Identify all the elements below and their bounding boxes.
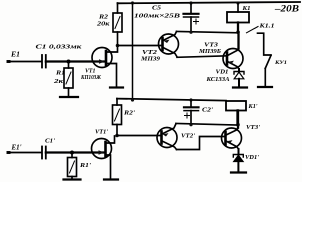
svg-text:КС133А: КС133А [205, 76, 230, 83]
ground [104, 178, 118, 180]
svg-text:КП103Ж: КП103Ж [80, 74, 102, 81]
wire supply drop to lower channel [131, 1, 134, 100]
ground [64, 178, 81, 180]
transistor VT1' [92, 129, 115, 179]
resistor R2 [96, 3, 122, 46]
terminal E1 [7, 50, 21, 64]
transistor VT2' [157, 124, 195, 150]
wire VT3' collector up to relay K1' [237, 111, 239, 128]
capacitor C5 [134, 1, 199, 33]
transistor VT3' [222, 124, 261, 149]
transistor VT3 МП39Б [198, 42, 243, 70]
wire [46, 151, 104, 153]
svg-text:МП39Б: МП39Б [198, 48, 221, 55]
wire [8, 152, 42, 154]
relay K1' [226, 101, 258, 125]
svg-text:20к: 20к [96, 21, 111, 28]
transistor VT1 КП103Ж [80, 46, 117, 87]
svg-text:Е1': Е1' [11, 143, 22, 152]
svg-text:С1': С1' [45, 138, 55, 145]
wire [8, 61, 42, 63]
zener VD1 КС133А [205, 69, 244, 87]
junction [236, 30, 240, 34]
emitter rail wire [177, 31, 239, 32]
svg-text:100мк×25В: 100мк×25В [134, 13, 181, 20]
junction [236, 123, 240, 127]
svg-text:С5: С5 [152, 5, 162, 12]
svg-text:VT3': VT3' [246, 124, 260, 131]
wire [46, 60, 104, 62]
node B [115, 134, 119, 138]
emitter rail wire lower [176, 123, 238, 125]
node A [116, 44, 120, 48]
ground [60, 96, 78, 98]
svg-text:R2': R2' [123, 110, 135, 117]
svg-text:С2': С2' [202, 107, 213, 114]
resistor R1 [53, 62, 73, 97]
svg-text:R1': R1' [79, 162, 91, 169]
capacitor C1 [36, 44, 83, 68]
zener VD1' [233, 149, 259, 172]
svg-text:VT2': VT2' [181, 133, 195, 140]
lower supply rail [117, 98, 226, 101]
node [70, 151, 74, 155]
wire VT2 collector to VT3 base [177, 56, 227, 58]
ground [110, 86, 123, 88]
wire node A to VT2 base [118, 45, 163, 47]
relay K1 [227, 1, 251, 32]
svg-text:К1': К1' [248, 103, 258, 110]
wire VT3 collector up to relay [237, 32, 239, 48]
svg-text:–20В: –20В [274, 4, 299, 14]
ground [233, 86, 247, 88]
resistor R2' [113, 99, 136, 136]
power rail -20V [118, 2, 301, 14]
node [67, 60, 71, 64]
svg-text:2к: 2к [53, 78, 64, 85]
transistor VT2 МП39 [140, 32, 179, 63]
contact K1.1 [247, 23, 288, 87]
svg-text:R2: R2 [98, 14, 109, 21]
wire node B to VT2' base [117, 135, 161, 137]
terminal E1' [7, 143, 22, 155]
svg-text:VD1': VD1' [245, 154, 259, 161]
ground [231, 171, 246, 173]
wire VT2' collector jog to VT3' base [177, 137, 226, 150]
svg-text:R1: R1 [55, 70, 65, 77]
svg-text:С1 0,033мк: С1 0,033мк [36, 44, 83, 51]
svg-text:Е1: Е1 [10, 50, 20, 59]
svg-text:VD1: VD1 [216, 69, 229, 76]
svg-text:К1.1: К1.1 [258, 23, 274, 30]
ground [258, 86, 272, 88]
svg-text:МП39: МП39 [140, 56, 161, 63]
capacitor C2' [184, 100, 213, 126]
svg-text:К1: К1 [241, 5, 250, 12]
resistor R1' [68, 153, 92, 180]
svg-text:КУ1: КУ1 [274, 60, 287, 66]
capacitor C1' [42, 138, 55, 159]
svg-text:VT1': VT1' [95, 129, 108, 136]
